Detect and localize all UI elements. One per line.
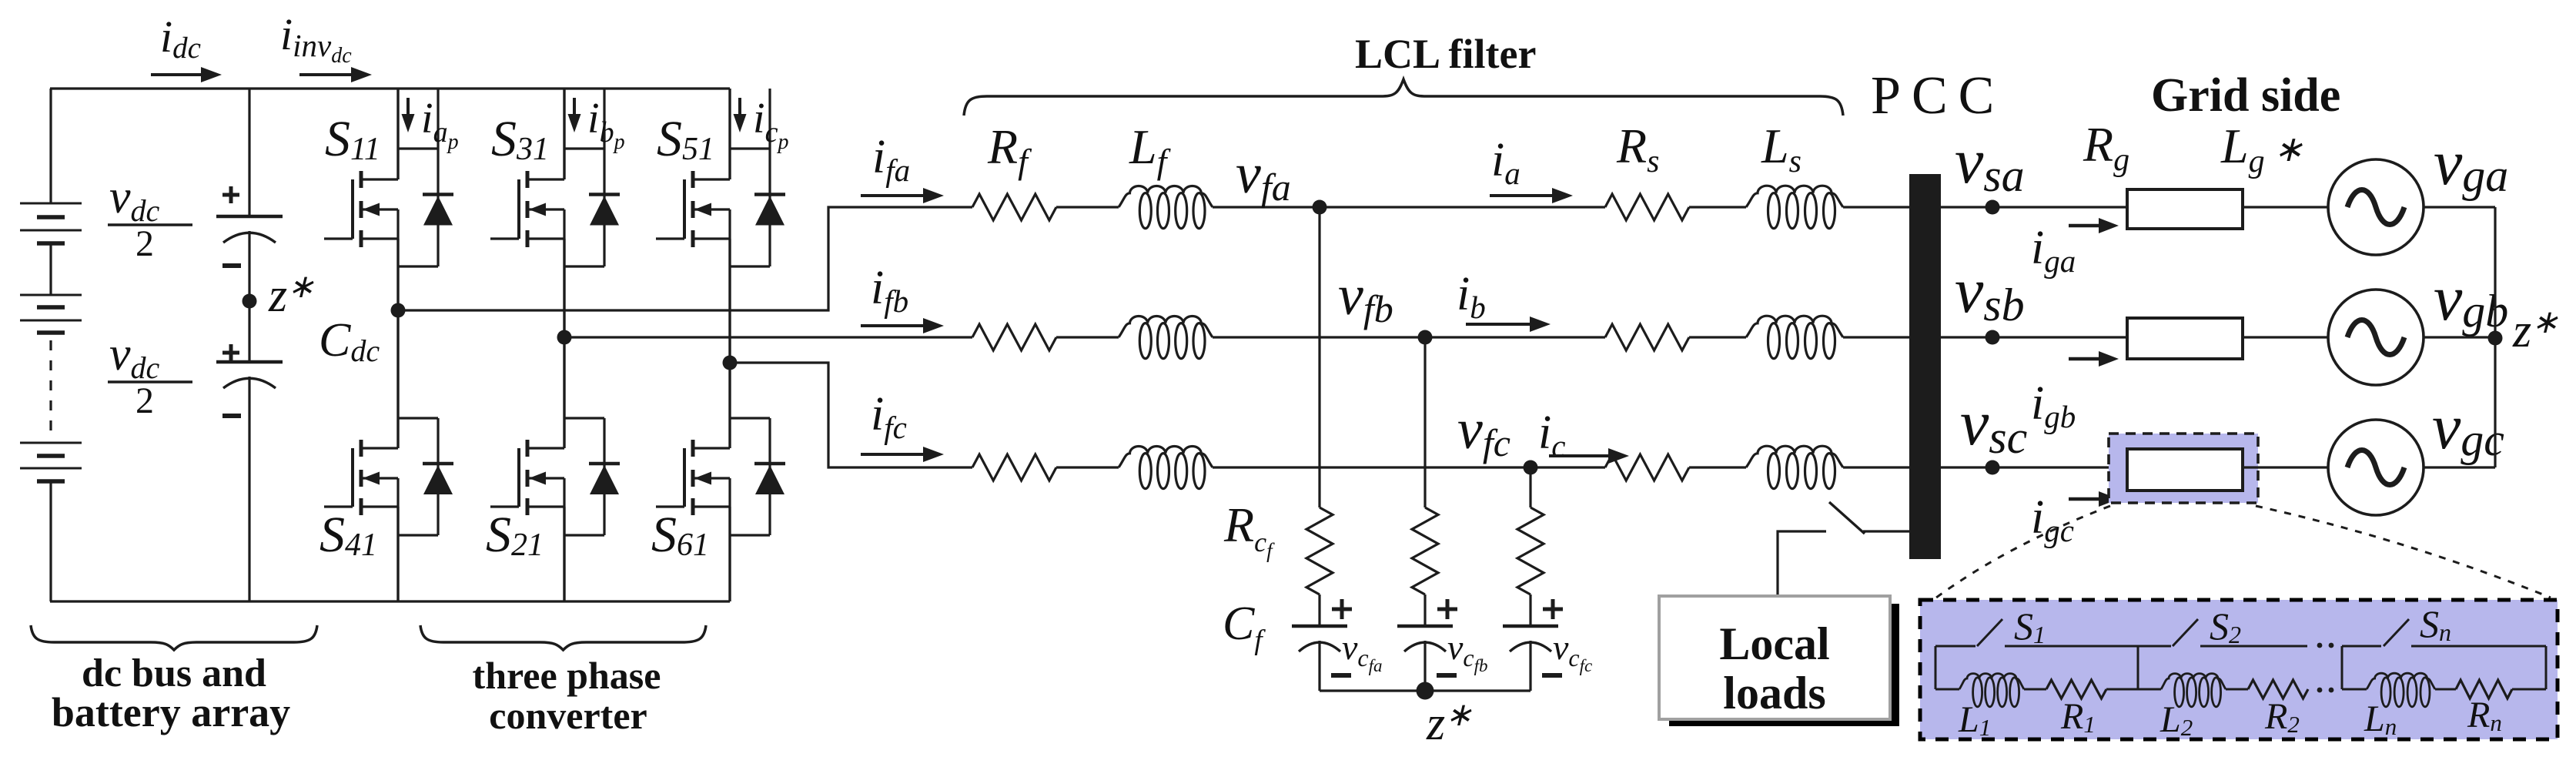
resistor Rs phase b	[1605, 324, 1689, 350]
diode antiparallel S21	[564, 418, 620, 535]
svg-text:battery array: battery array	[52, 689, 290, 735]
wire PCC to load switch	[1863, 530, 1910, 532]
wire Rcf to Cf phase a	[1318, 595, 1320, 626]
polarity - upper cap	[222, 263, 241, 268]
ac source v_gb	[2328, 290, 2424, 385]
label Ln	[2364, 698, 2397, 740]
svg-text:loads: loads	[1723, 668, 1825, 718]
label Rs	[1616, 119, 1659, 179]
wire dc-link cap branch bottom	[248, 377, 250, 601]
inductor L2	[2161, 674, 2226, 707]
label i_gb	[2031, 377, 2076, 434]
wire branch2 bottom left	[2138, 688, 2161, 691]
node phase a output	[391, 303, 406, 318]
node v_sb	[1986, 330, 2000, 345]
label PCC	[1871, 66, 1994, 126]
resistor Rcf phase b	[1412, 507, 1438, 595]
capacitor Cf phase c	[1503, 626, 1558, 651]
label i_fb	[871, 262, 908, 319]
label S2	[2210, 605, 2241, 648]
transistor S41	[324, 440, 398, 515]
diode antiparallel S51	[730, 89, 785, 266]
diode antiparallel S31	[564, 89, 620, 266]
label LCL filter	[1355, 31, 1536, 77]
arrow i_inv_dc	[299, 67, 372, 82]
label three phase converter	[473, 654, 661, 737]
label i_b	[1457, 268, 1486, 325]
label i_fa	[872, 131, 910, 188]
wire leg phase b lower	[563, 337, 565, 601]
node z* dc midpoint	[243, 294, 257, 309]
wire leg phase a lower	[396, 310, 399, 601]
switch local loads blade	[1829, 502, 1865, 534]
local loads box shadow	[1669, 604, 1899, 726]
svg-text:Local: Local	[1719, 618, 1829, 669]
label i_ap	[421, 95, 459, 154]
polarity + upper cap	[222, 186, 239, 203]
wire branchn bottom left	[2342, 688, 2367, 691]
polarity + Cf a	[1332, 599, 1352, 619]
node z* filter star	[1417, 682, 1434, 700]
polarity - Cf a	[1331, 673, 1351, 678]
wire branchn left	[2341, 646, 2343, 689]
brace three phase converter	[420, 625, 706, 650]
label S41	[319, 507, 377, 563]
brace LCL filter	[964, 79, 1843, 116]
wire branch1 top right	[2005, 645, 2138, 648]
wire source to neutral phase b	[2424, 336, 2495, 338]
transistor S61	[656, 440, 730, 515]
label vdc/2 upper	[108, 171, 192, 264]
label v_sc	[1960, 387, 2027, 463]
polarity + lower cap	[222, 344, 239, 361]
wire Rg to source phase a	[2243, 206, 2328, 208]
arrow i_fc	[861, 447, 944, 462]
wire PCC to Rg phase a	[1941, 206, 2127, 208]
wire grid neutral bus	[2494, 207, 2496, 467]
node v_fc	[1524, 461, 1538, 475]
inductor Lf phase c	[1119, 447, 1213, 489]
label S31	[491, 111, 549, 167]
wire Rcf to Cf phase c	[1529, 595, 1531, 626]
label S51	[657, 111, 714, 167]
battery cells upper group	[20, 89, 82, 333]
capacitor Cdc lower	[216, 362, 283, 388]
wire branch1 top left	[1935, 645, 1975, 648]
svg-text:LCL filter: LCL filter	[1355, 31, 1536, 77]
brace dc bus and battery array	[31, 625, 317, 650]
capacitor Cf phase b	[1397, 626, 1453, 651]
wire Ls to PCC phase b	[1843, 336, 1910, 338]
label i_gc	[2031, 491, 2074, 548]
wire phase a Lf to Rs	[1213, 206, 1605, 208]
highlight box around Rg phase c	[2109, 434, 2258, 503]
label v_cfa	[1342, 628, 1383, 675]
label R2	[2264, 696, 2300, 738]
label S21	[486, 507, 544, 563]
ellipsis dots top	[2317, 643, 2334, 648]
wire Rf-Lf phase b	[1056, 336, 1119, 338]
wire phase c converter to filter	[730, 363, 972, 467]
inductor Lf phase a	[1119, 186, 1213, 229]
wire Rs-Ls phase c	[1689, 466, 1746, 468]
node v_sc	[1986, 461, 2000, 475]
inductor Ls phase b	[1746, 316, 1843, 358]
resistor Rcf phase c	[1517, 507, 1544, 595]
switch S1 blade	[1977, 619, 2002, 646]
arrow i_cp	[734, 98, 747, 132]
wire Cf bottom phase c	[1529, 641, 1531, 691]
wire Cf bottom phase b	[1423, 641, 1426, 691]
label i_fc	[871, 388, 907, 445]
wire shunt branch a upper	[1318, 207, 1320, 507]
node v_fb	[1418, 330, 1433, 345]
transistor S21	[490, 440, 564, 515]
inductor Ls phase a	[1746, 186, 1843, 228]
arrow i_gc	[2069, 491, 2119, 507]
polarity - lower cap	[222, 414, 241, 418]
node phase b output	[557, 330, 572, 345]
label z* filter star	[1426, 698, 1472, 750]
wire Rs-Ls phase a	[1689, 206, 1746, 208]
wire source to neutral phase a	[2424, 206, 2495, 208]
wire L2-R2	[2226, 688, 2248, 691]
wire branch2 top left	[2138, 645, 2171, 648]
label vdc/2 lower	[108, 328, 192, 421]
wire leg phase a upper	[396, 89, 399, 310]
polarity + Cf c	[1543, 599, 1563, 619]
svg-text:2: 2	[135, 223, 154, 264]
battery cells lower group	[20, 443, 82, 601]
wire shunt star bottom	[1320, 689, 1531, 692]
label Rf	[987, 119, 1032, 181]
label i_ga	[2031, 222, 2076, 279]
load detail box	[1920, 600, 2558, 739]
label i_c	[1538, 407, 1565, 464]
label Cdc	[319, 314, 380, 368]
wire phase a converter to filter	[398, 207, 972, 310]
node z* grid neutral	[2488, 331, 2503, 346]
label R1	[2060, 696, 2096, 738]
wire switch to local loads	[1778, 531, 1826, 596]
arrow i_gb	[2069, 351, 2119, 367]
label Sn	[2420, 602, 2451, 646]
wire battery dashed continuation	[49, 340, 52, 433]
polarity - Cf b	[1437, 673, 1457, 678]
label Cf	[1223, 598, 1266, 656]
resistor-box Rg phase c	[2127, 449, 2243, 491]
label v_gb	[2434, 263, 2508, 337]
wire Cf bottom phase a	[1318, 641, 1320, 691]
resistor R1	[2046, 680, 2106, 698]
wire branch1 bottom left	[1935, 688, 1959, 691]
wire dc bus negative rail	[50, 600, 730, 602]
switch Sn blade	[2384, 619, 2409, 646]
wire source to neutral phase c	[2424, 466, 2495, 468]
arrow i_a	[1490, 188, 1573, 203]
wire Ls to PCC phase a	[1843, 206, 1910, 208]
local loads box	[1659, 596, 1890, 719]
diode antiparallel S11	[398, 89, 453, 266]
diode antiparallel S41	[398, 418, 453, 535]
wire Rcf to Cf phase b	[1423, 595, 1426, 626]
label L2	[2159, 699, 2193, 741]
label Lg*	[2220, 119, 2303, 179]
label v_fc	[1457, 398, 1510, 464]
wire leg phase b upper	[563, 89, 565, 337]
transistor S11	[324, 171, 398, 247]
label Grid side	[2151, 69, 2340, 122]
ellipsis dots bottom	[2317, 688, 2334, 693]
wire Ls to PCC phase c	[1843, 466, 1910, 468]
svg-text:three phase: three phase	[473, 654, 661, 697]
switch S2 blade	[2173, 619, 2198, 646]
wire R1 right	[2106, 688, 2138, 691]
wire branch1 left	[1935, 646, 1937, 689]
label v_sa	[1955, 126, 2025, 201]
wire Rg to source phase c	[2243, 466, 2328, 468]
node v_fa	[1313, 200, 1327, 215]
label Local loads	[1719, 618, 1829, 718]
diode antiparallel S61	[730, 418, 785, 535]
wire PCC to Rg phase b	[1941, 336, 2127, 338]
label z* grid neutral	[2512, 305, 2558, 357]
capacitor Cf phase a	[1292, 626, 1347, 651]
label i_a	[1491, 134, 1521, 191]
label v_ga	[2434, 127, 2508, 201]
label i_cp	[753, 95, 788, 154]
label i_bp	[587, 95, 625, 154]
wire phase b Lf to Rs	[1213, 336, 1605, 338]
inductor Ls phase c	[1746, 446, 1843, 488]
resistor Rf phase a	[972, 194, 1056, 220]
svg-text:Grid side: Grid side	[2151, 69, 2340, 122]
node v_sa	[1986, 200, 2000, 215]
label Rg	[2083, 117, 2129, 178]
label S61	[651, 507, 709, 563]
arrow i_c	[1549, 448, 1629, 464]
label i_dc	[160, 12, 201, 65]
wire L1-R1	[2024, 688, 2046, 691]
svg-text:converter: converter	[489, 694, 647, 737]
arrow i_bp	[568, 98, 581, 132]
ac source v_gc	[2328, 420, 2424, 515]
label L1	[1958, 699, 1991, 741]
label v_fb	[1338, 264, 1393, 330]
wire Ln-Rn	[2435, 688, 2456, 691]
polarity - Cf c	[1542, 673, 1562, 678]
resistor Rcf phase a	[1306, 507, 1333, 595]
arrow i_ga	[2069, 218, 2119, 233]
wire Rf-Lf phase a	[1056, 206, 1119, 208]
transistor S31	[490, 171, 564, 247]
arrow i_fb	[861, 318, 944, 333]
label Lf	[1129, 119, 1172, 181]
svg-text:2: 2	[135, 380, 154, 421]
label z* dc midpoint	[268, 270, 314, 322]
bus bar PCC	[1909, 174, 1941, 559]
wire branchn right	[2545, 646, 2548, 689]
label v_sb	[1955, 255, 2025, 330]
resistor Rs phase a	[1605, 194, 1689, 220]
label v_cfc	[1553, 628, 1592, 675]
wire Rs-Ls phase b	[1689, 336, 1746, 338]
label Rn	[2467, 695, 2502, 736]
polarity + Cf b	[1437, 599, 1457, 619]
resistor Rf phase c	[972, 454, 1056, 481]
wire dc bus positive rail	[50, 87, 730, 89]
wire branchn top left	[2342, 645, 2381, 648]
resistor R2	[2248, 680, 2308, 698]
label S11	[325, 111, 380, 167]
wire phase b converter to filter	[564, 336, 972, 338]
resistor Rn	[2456, 680, 2512, 698]
label S1	[2014, 605, 2046, 648]
node phase c output	[723, 356, 738, 370]
resistor-box Rg phase a	[2127, 189, 2243, 229]
label Ls	[1761, 119, 1802, 179]
capacitor Cdc upper	[216, 216, 283, 243]
label Rcf	[1223, 497, 1275, 562]
inductor L1	[1959, 674, 2024, 707]
wire branch2 top right	[2200, 645, 2307, 648]
wire dc-link cap branch top	[248, 89, 250, 216]
arrow i_b	[1466, 317, 1551, 332]
wire between caps	[248, 231, 250, 362]
dashed connector left	[1936, 506, 2110, 598]
wire leg phase c upper	[728, 89, 731, 363]
wire shunt branch b upper	[1423, 337, 1426, 507]
wire phase c Lf to Rs	[1213, 466, 1605, 468]
transistor S51	[656, 171, 730, 247]
label v_cfb	[1447, 628, 1488, 675]
label dc bus and battery array	[52, 651, 290, 735]
ac source v_ga	[2328, 159, 2424, 255]
arrow i_dc	[151, 67, 222, 82]
wire PCC to Rg phase c	[1941, 466, 2127, 468]
inductor Lf phase b	[1119, 316, 1213, 358]
wire branch1 right	[2137, 646, 2139, 689]
label i_inv_dc	[280, 9, 352, 68]
wire Rn right	[2512, 688, 2546, 691]
dashed connector right	[2256, 506, 2551, 598]
wire Rf-Lf phase c	[1056, 466, 1119, 468]
wire shunt branch c upper	[1529, 467, 1531, 507]
arrow i_ap	[402, 98, 415, 132]
arrow i_fa	[861, 188, 944, 203]
resistor-box Rg phase b	[2127, 318, 2243, 359]
resistor Rs phase c	[1605, 454, 1689, 481]
wire leg phase c lower	[728, 363, 731, 601]
svg-text:P C C: P C C	[1871, 66, 1994, 126]
label v_fa	[1236, 142, 1291, 209]
wire Rg to source phase b	[2243, 336, 2328, 338]
inductor Ln	[2367, 673, 2435, 707]
label v_gc	[2432, 391, 2504, 465]
resistor Rf phase b	[972, 324, 1056, 350]
wire branchn top right	[2411, 645, 2546, 648]
